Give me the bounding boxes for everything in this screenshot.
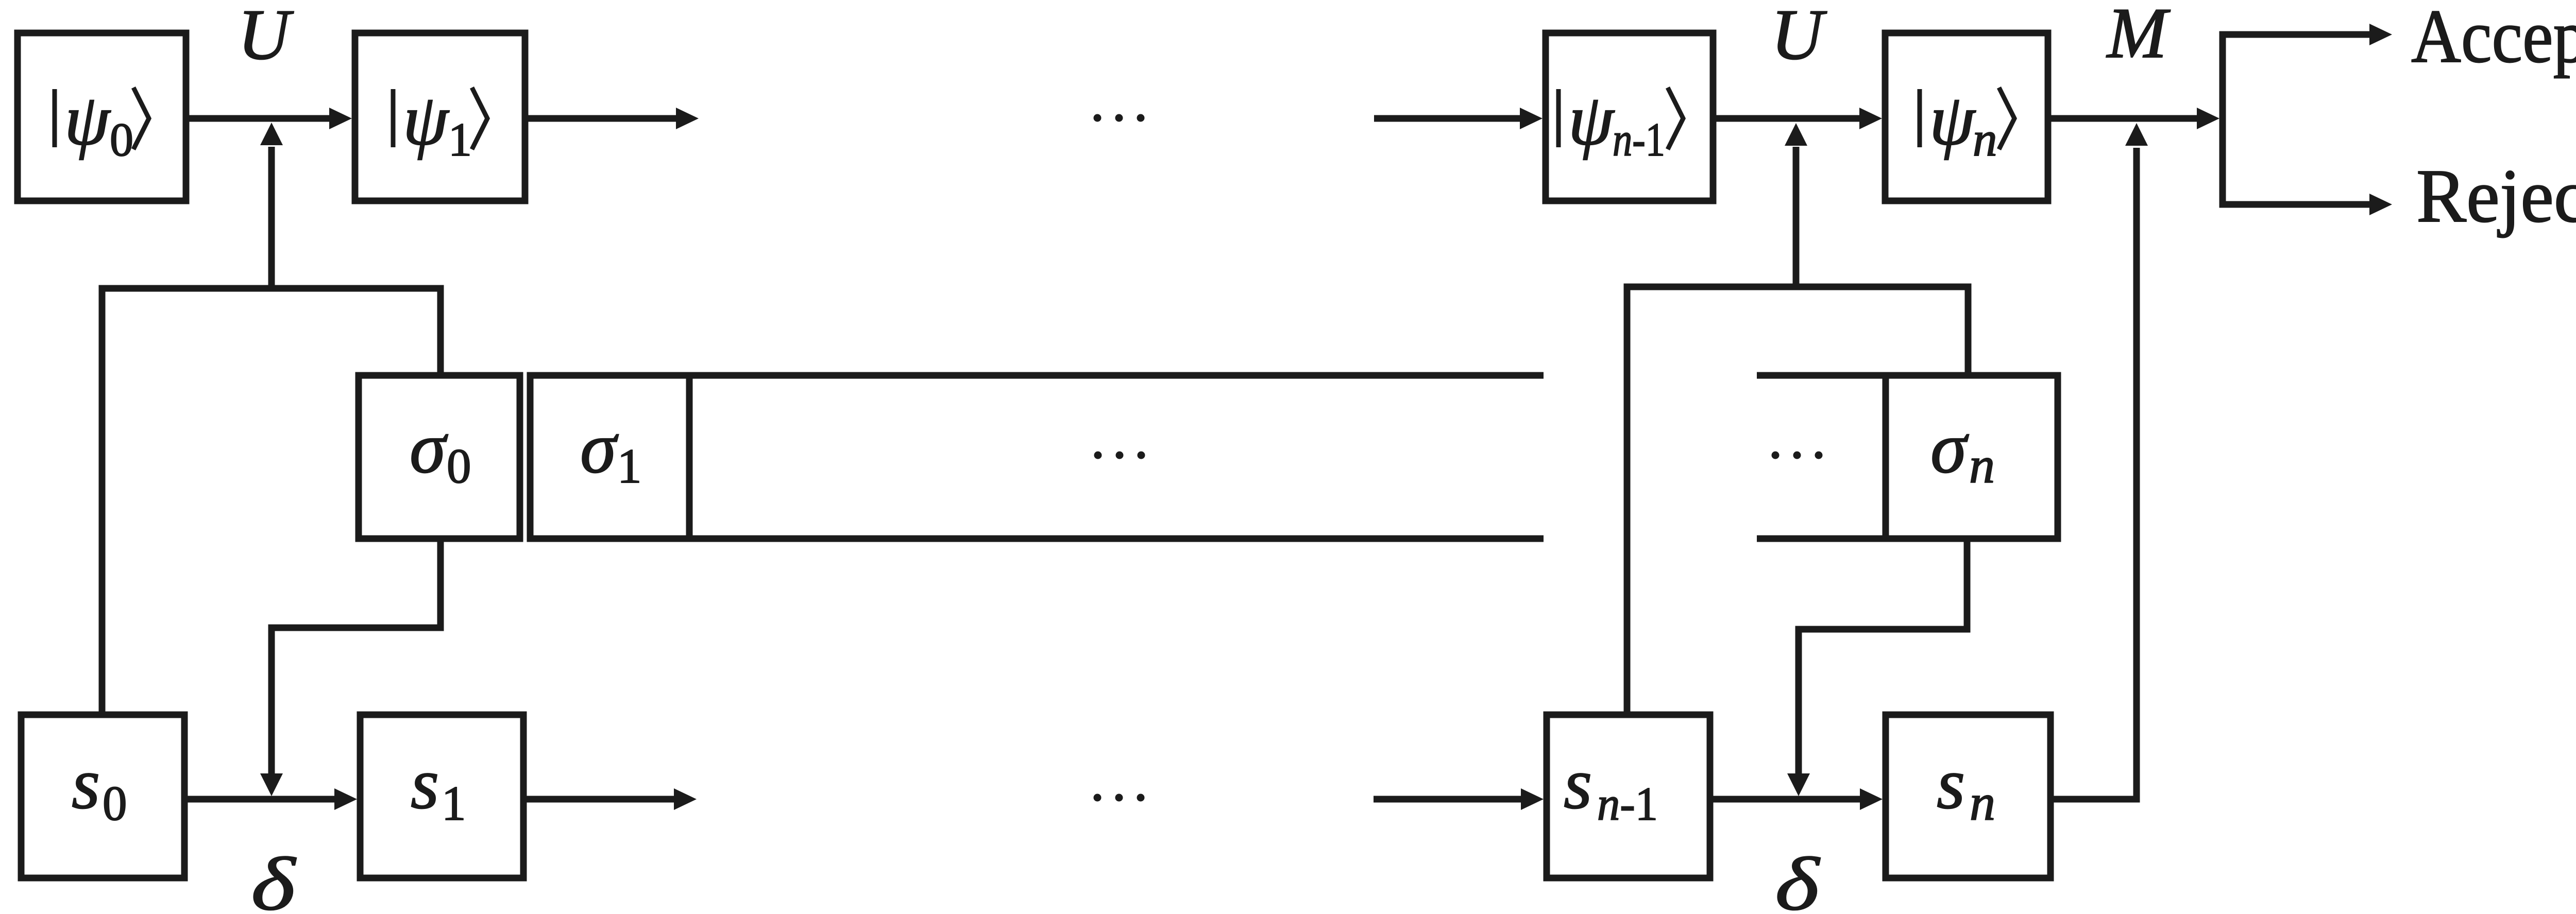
arrowhead down left delta junction [260, 773, 283, 796]
svg-text:ψ: ψ [403, 79, 450, 160]
arrowhead into psi_1 [329, 108, 352, 129]
wire psi0 to psi1 [186, 115, 332, 122]
wire out of psi1 [525, 115, 679, 122]
arrowhead to Reject [2369, 194, 2392, 215]
arrowhead to Accept [2369, 24, 2392, 45]
dots top row [1094, 114, 1101, 122]
label |psi_1> [393, 79, 487, 166]
svg-text:1: 1 [442, 776, 466, 831]
left control harness [102, 288, 440, 715]
state box |psi_n-1> [1546, 33, 1713, 201]
arrowhead into measurement fork [2197, 108, 2219, 129]
state box s_n-1 [1547, 715, 1710, 878]
svg-text:M: M [2106, 0, 2171, 73]
label s_0 [72, 743, 127, 831]
svg-text:ψ: ψ [1568, 79, 1615, 160]
svg-text:ψ: ψ [64, 79, 111, 160]
svg-text:0: 0 [110, 113, 133, 166]
arrowhead out of psi_1 [676, 108, 699, 129]
label delta left [251, 842, 296, 914]
label |psi_n-1> [1558, 79, 1683, 166]
label |psi_n> [1920, 79, 2014, 166]
wire out of s1 [523, 796, 677, 803]
state box s_0 [21, 715, 184, 878]
svg-text:s: s [1564, 743, 1592, 824]
svg-text:δ: δ [251, 842, 296, 914]
dots tape band 2 [1772, 452, 1780, 459]
wire psi_n to measurement fork [2048, 115, 2200, 122]
state box |psi_0> [18, 33, 186, 201]
svg-text:n: n [1970, 774, 1995, 831]
svg-text:Reject: Reject [2416, 154, 2576, 238]
arrowhead into s_n-1 [1521, 788, 1544, 810]
state box |psi_n> [1885, 33, 2048, 201]
wire psi_n-1 to psi_n [1713, 115, 1862, 122]
state box s_1 [360, 715, 523, 878]
svg-text:s: s [1937, 743, 1965, 824]
state box s_n [1886, 715, 2050, 878]
wire s_n-1 to s_n [1710, 796, 1863, 803]
wire s0 to s1 [184, 796, 337, 803]
tape cell sigma_0 [359, 375, 520, 539]
right delta zigzag from sigma_n [1799, 539, 1967, 773]
arrowhead up M junction [2125, 123, 2148, 146]
svg-text:σ: σ [580, 407, 619, 488]
svg-text:n: n [1969, 437, 1995, 494]
arrowhead into s_1 [334, 788, 357, 810]
state box |psi_1> [355, 33, 525, 201]
tape band 2 top line [1757, 372, 1886, 379]
svg-text:n: n [1973, 112, 1997, 166]
tape cell sigma_1 [530, 375, 689, 539]
right U junction riser [1793, 147, 1800, 287]
tape cell sigma_n [1886, 375, 2058, 539]
wire into psi_n-1 [1374, 115, 1523, 122]
svg-text:n-1: n-1 [1597, 778, 1658, 830]
wire s_n up to measurement M [2050, 148, 2137, 799]
arrowhead up left U junction [260, 123, 283, 145]
svg-text:ψ: ψ [1929, 79, 1976, 160]
left U junction riser [268, 147, 275, 288]
tape band bottom line [689, 536, 1544, 542]
arrowhead down right delta junction [1787, 773, 1810, 796]
dots tape band [1094, 452, 1102, 459]
svg-text:Accept: Accept [2411, 0, 2576, 79]
svg-text:1: 1 [617, 439, 642, 493]
svg-text:U: U [238, 0, 294, 75]
label sigma_1 [580, 407, 642, 493]
svg-text:U: U [1771, 0, 1827, 75]
svg-text:0: 0 [103, 776, 127, 831]
tape band 2 bottom line [1757, 536, 1886, 542]
label s_n [1937, 743, 1995, 831]
arrowhead into s_n [1860, 788, 1883, 810]
label |psi_0> [55, 79, 149, 166]
arrowhead into psi_n [1859, 108, 1882, 129]
svg-text:δ: δ [1775, 842, 1820, 914]
svg-text:n-1: n-1 [1613, 113, 1665, 166]
svg-text:σ: σ [410, 407, 448, 488]
label sigma_n [1930, 407, 1995, 494]
svg-text:σ: σ [1930, 407, 1969, 488]
arrowhead up right U junction [1785, 123, 1807, 146]
label s_1 [411, 743, 466, 831]
label sigma_0 [410, 407, 471, 493]
arrowhead out of s_1 [674, 788, 697, 810]
tape band top line [689, 372, 1544, 379]
left delta zigzag from sigma_0 [272, 539, 440, 773]
wire into s_n-1 [1374, 796, 1524, 803]
measurement fork [2223, 35, 2370, 204]
right control harness [1627, 287, 1968, 715]
svg-text:0: 0 [447, 439, 471, 493]
label s_n-1 [1564, 743, 1658, 830]
label delta right [1775, 842, 1820, 914]
dots bottom row [1094, 794, 1101, 802]
svg-text:s: s [411, 743, 439, 824]
arrowhead into psi_n-1 [1520, 108, 1543, 129]
svg-text:1: 1 [448, 113, 472, 166]
svg-text:s: s [72, 743, 100, 824]
